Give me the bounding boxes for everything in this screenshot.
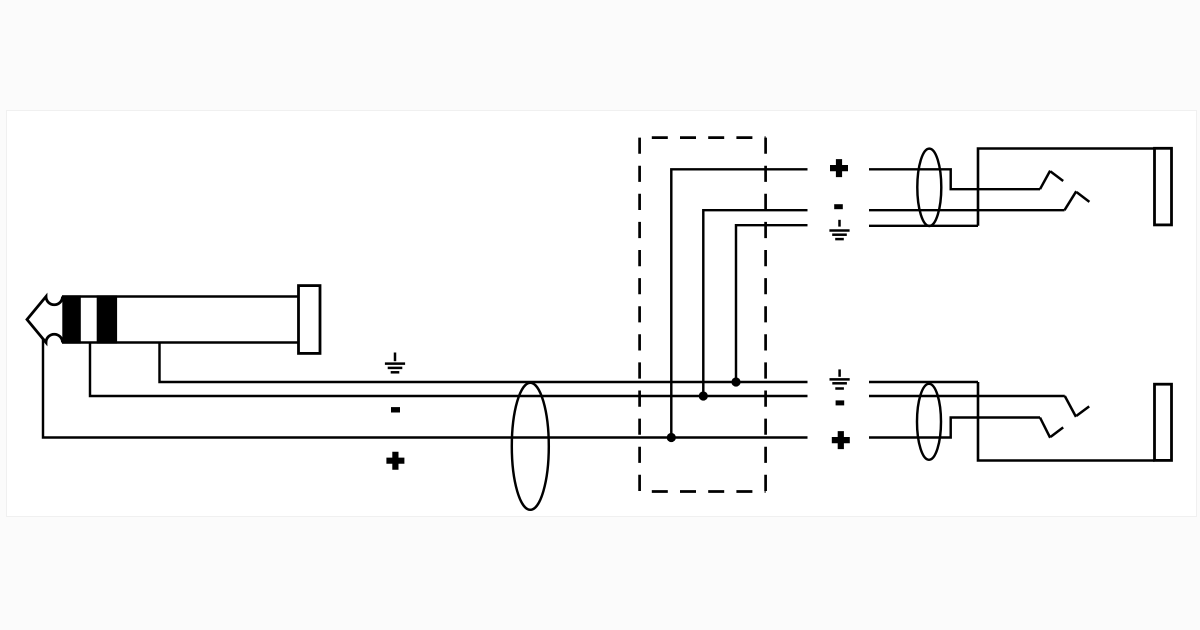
wire: + into top socket with tip contact step [869, 169, 1040, 189]
cable shield ellipse (top cable) [917, 149, 941, 226]
wire: sleeve (shield) from plug, down and right to splitter [160, 342, 808, 382]
splitter junction dashed box [640, 138, 766, 492]
junction dot: + branch [667, 433, 676, 442]
label - (bottom socket cold) [836, 400, 845, 405]
bottom socket J2 frame [978, 382, 1155, 461]
label - (top socket cold) [834, 204, 843, 209]
bottom socket J2 end cap [1155, 384, 1172, 460]
label + (left tip wire) [386, 452, 404, 470]
top socket J1 end cap [1155, 148, 1172, 225]
wire: branch shield up to top socket [736, 225, 808, 382]
wire: branch - up to top socket [703, 210, 807, 396]
cable shield ellipse (bottom cable) [917, 384, 941, 460]
TRS plug P1 rear flange [299, 286, 321, 354]
wire: + into bottom socket with tip contact step [869, 418, 1040, 438]
top socket J1 frame [978, 149, 1155, 226]
top socket ring contact lever [1065, 191, 1077, 210]
wire: - into top socket [869, 209, 1065, 211]
ground symbol (top socket shield) [829, 220, 849, 239]
label - (left ring wire) [391, 407, 400, 412]
label + (top socket hot) [830, 159, 848, 177]
junction dot: - branch [699, 391, 708, 400]
TRS plug P1 insulator ring band 2 [97, 295, 117, 343]
TRS plug P1 tip [27, 297, 63, 343]
bottom socket ring contact lever [1065, 396, 1076, 417]
wire: tip (+) from plug, down and right to splitter [43, 338, 808, 438]
TRS plug P1 insulator ring band 1 [62, 295, 81, 343]
bottom socket tip contact lever [1040, 418, 1050, 438]
junction dot: shield branch [731, 377, 740, 386]
TRS plug P1 barrel top edge [62, 295, 299, 297]
wire: - into bottom socket [869, 395, 1065, 397]
card background [7, 111, 1197, 517]
top socket tip contact lever [1040, 171, 1050, 190]
wire: branch + up to top socket [671, 169, 807, 437]
ground symbol (bottom socket shield) [830, 369, 850, 388]
label + (bottom socket hot) [832, 431, 850, 449]
TRS plug P1 barrel bottom edge [62, 341, 299, 343]
ground symbol (left, shield wire label) [385, 353, 405, 373]
wire: shield into top socket frame [869, 225, 978, 227]
wire: ring (-) from plug, down and right to splitter [90, 342, 808, 396]
cable shield ellipse (left cable) [512, 383, 549, 510]
wire: shield into bottom socket frame [869, 381, 978, 383]
